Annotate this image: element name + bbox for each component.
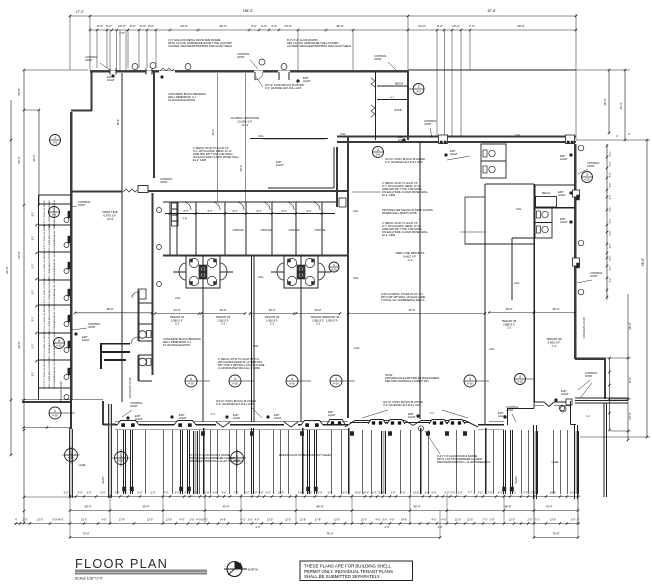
svg-text:COL.: COL. xyxy=(353,276,360,280)
svg-text:A-16: A-16 xyxy=(584,178,590,182)
svg-text:8'-0": 8'-0" xyxy=(307,210,312,213)
svg-text:5'-0": 5'-0" xyxy=(610,244,612,249)
svg-text:WITH HDWE AND LOCKSET: WITH HDWE AND LOCKSET xyxy=(48,223,51,252)
svg-text:JOINT: JOINT xyxy=(130,404,138,408)
svg-text:13'-0": 13'-0" xyxy=(267,519,273,522)
svg-text:LIGHT: LIGHT xyxy=(561,392,569,396)
svg-text:4'-0": 4'-0" xyxy=(256,526,261,529)
svg-text:1: 1 xyxy=(54,409,56,413)
svg-text:NORTH: NORTH xyxy=(248,568,258,572)
svg-text:36'-0": 36'-0" xyxy=(17,251,21,259)
storefront base squares xyxy=(201,432,204,436)
svg-text:JOINT: JOINT xyxy=(585,374,593,378)
toilet room top right xyxy=(481,144,506,178)
svg-text:36'-6": 36'-6" xyxy=(619,102,623,110)
svg-text:1,950 S.F.: 1,950 S.F. xyxy=(326,318,338,322)
hall west wall xyxy=(347,136,349,418)
svg-text:195'-0": 195'-0" xyxy=(243,9,254,13)
svg-text:3'-4" H& BASE HGT-FULL HGT.: 3'-4" H& BASE HGT-FULL HGT. xyxy=(385,160,424,164)
svg-text:30'-0": 30'-0" xyxy=(17,341,21,349)
svg-text:CONCRETE CURB: CONCRETE CURB xyxy=(60,381,63,402)
svg-text:36'-6": 36'-6" xyxy=(117,119,120,125)
svg-text:5: 5 xyxy=(58,339,60,343)
svg-text:9'-0": 9'-0" xyxy=(138,492,143,495)
svg-text:4: 4 xyxy=(291,377,293,381)
svg-text:CLOSER, WEATHERSTRIPPING AND A: CLOSER, WEATHERSTRIPPING AND ALUM THELD xyxy=(287,44,351,48)
svg-text:CLOSER AND ALUM THLD: CLOSER AND ALUM THLD xyxy=(53,360,56,387)
svg-text:C-2: C-2 xyxy=(270,322,275,326)
svg-text:7'-1": 7'-1" xyxy=(512,492,517,495)
svg-text:LIGHT: LIGHT xyxy=(82,338,90,342)
svg-text:16'-0": 16'-0" xyxy=(355,492,361,495)
svg-text:8'-0": 8'-0" xyxy=(33,264,35,269)
svg-text:8'-0": 8'-0" xyxy=(628,377,632,383)
office dim row xyxy=(165,213,335,215)
svg-text:9'-0": 9'-0" xyxy=(185,492,190,495)
svg-text:A-16: A-16 xyxy=(188,382,194,386)
left bay door leafs xyxy=(68,211,70,218)
storefront alcove southeast xyxy=(507,408,509,425)
svg-text:4'-0": 4'-0" xyxy=(261,24,267,28)
svg-text:4'-0": 4'-0" xyxy=(241,519,246,522)
svg-text:2'-0": 2'-0" xyxy=(528,519,533,522)
svg-text:3: 3 xyxy=(586,173,588,177)
svg-text:4: 4 xyxy=(234,377,236,381)
svg-text:OFFICE: OFFICE xyxy=(315,228,326,232)
svg-text:49'-0": 49'-0" xyxy=(239,165,243,172)
svg-text:LIGHT: LIGHT xyxy=(408,415,416,419)
wall omni north xyxy=(71,191,122,193)
svg-text:A-16: A-16 xyxy=(517,380,523,384)
svg-text:2'-8": 2'-8" xyxy=(571,519,576,522)
svg-text:3'-0"x4'-0": 3'-0"x4'-0" xyxy=(52,519,63,522)
svg-text:COL.: COL. xyxy=(514,281,521,285)
svg-text:43'-4": 43'-4" xyxy=(222,505,229,509)
svg-text:WITH HDWE AND LOCKSET: WITH HDWE AND LOCKSET xyxy=(48,277,51,306)
right wing west wall xyxy=(533,184,535,402)
svg-text:7'-6": 7'-6" xyxy=(298,492,303,495)
svg-text:MECH: MECH xyxy=(395,82,403,86)
svg-text:3'-0": 3'-0" xyxy=(478,492,483,495)
svg-text:30'-6": 30'-6" xyxy=(517,24,525,28)
storefront center pilasters xyxy=(327,420,345,425)
svg-text:A-6: A-6 xyxy=(416,90,421,94)
door frame corridor low xyxy=(138,289,146,299)
svg-text:74'-0": 74'-0" xyxy=(326,532,333,536)
svg-text:JOINT: JOINT xyxy=(237,55,245,59)
svg-text:13'-0": 13'-0" xyxy=(147,519,153,522)
svg-text:17'-0": 17'-0" xyxy=(76,10,84,14)
svg-text:2'-8": 2'-8" xyxy=(490,519,495,522)
svg-text:30'-4": 30'-4" xyxy=(84,505,91,509)
dimension top second row xyxy=(90,29,576,31)
counter omni xyxy=(100,343,130,345)
svg-text:2: 2 xyxy=(54,136,56,140)
svg-text:10'-0": 10'-0" xyxy=(278,492,284,495)
svg-text:5'-0": 5'-0" xyxy=(610,256,612,261)
svg-text:1: 1 xyxy=(53,208,55,212)
svg-text:8'-0": 8'-0" xyxy=(184,210,189,213)
center block dividers xyxy=(139,302,153,304)
dimension bottom row1 xyxy=(70,496,580,498)
shelving closet xyxy=(172,203,179,226)
svg-text:13'-0": 13'-0" xyxy=(550,519,556,522)
svg-text:C.J.: C.J. xyxy=(586,414,591,418)
svg-text:96'-6": 96'-6" xyxy=(641,258,645,266)
svg-text:CLOSER, WEATHERSTRIPPING AND A: CLOSER, WEATHERSTRIPPING AND ALUM THELD xyxy=(168,44,232,48)
svg-text:4'-6": 4'-6" xyxy=(271,24,277,28)
svg-text:CLOSER AND ALUM THLD: CLOSER AND ALUM THLD xyxy=(53,278,56,305)
pilaster corridor xyxy=(138,186,148,193)
svg-text:JOINT: JOINT xyxy=(587,164,595,168)
svg-text:16 HOUR ELEVATION: 16 HOUR ELEVATION xyxy=(168,98,195,102)
svg-text:36'-6": 36'-6" xyxy=(32,154,36,161)
svg-text:JOINT: JOINT xyxy=(88,325,96,329)
svg-text:WEATHERSTRIPPING + ALUM THRESH: WEATHERSTRIPPING + ALUM THRESHOLD xyxy=(190,459,244,463)
svg-text:3'-0": 3'-0" xyxy=(245,492,250,495)
svg-text:COL.: COL. xyxy=(354,346,361,350)
svg-text:9'-0": 9'-0" xyxy=(213,492,218,495)
svg-text:C4.2: C4.2 xyxy=(242,123,249,127)
svg-text:A-16: A-16 xyxy=(289,382,295,386)
door omni corridor xyxy=(123,189,137,192)
svg-text:JOINT: JOINT xyxy=(160,180,168,184)
svg-text:3'-0": 3'-0" xyxy=(458,492,463,495)
east entry steps xyxy=(575,397,628,399)
svg-text:OFFICE: OFFICE xyxy=(261,228,272,232)
wall west vestibule xyxy=(90,71,92,111)
svg-text:4: 4 xyxy=(335,377,337,381)
small door circle southeast xyxy=(560,406,566,412)
svg-text:13'-0": 13'-0" xyxy=(81,519,87,522)
svg-text:3'-0": 3'-0" xyxy=(328,492,333,495)
svg-text:86'-8": 86'-8" xyxy=(316,505,323,509)
svg-text:WITH HDWE AND LOCKSET: WITH HDWE AND LOCKSET xyxy=(48,251,51,280)
svg-text:LANE: LANE xyxy=(552,460,559,464)
svg-text:2: 2 xyxy=(418,85,420,89)
svg-text:(1 HOUR RATED WALL EL 4" GRM): (1 HOUR RATED WALL EL 4" GRM) xyxy=(218,366,260,370)
svg-text:4: 4 xyxy=(377,148,379,152)
wall omni east xyxy=(121,73,123,402)
svg-text:8'-0": 8'-0" xyxy=(33,290,35,295)
svg-text:JOINT: JOINT xyxy=(424,122,432,126)
svg-text:15'-6": 15'-6" xyxy=(628,412,632,420)
svg-text:13'-0": 13'-0" xyxy=(166,519,172,522)
svg-text:12'-0": 12'-0" xyxy=(285,519,291,522)
svg-text:34'-0": 34'-0" xyxy=(219,308,226,312)
svg-text:TYPICAL ALL NONBEARING WALLS: TYPICAL ALL NONBEARING WALLS xyxy=(381,298,425,302)
svg-text:OFFICE: OFFICE xyxy=(233,228,244,232)
svg-text:A-16: A-16 xyxy=(56,344,62,348)
svg-text:C-2: C-2 xyxy=(507,326,512,330)
svg-text:C-2: C-2 xyxy=(552,344,557,348)
section marker A6-2 xyxy=(50,135,61,146)
offices bottom wall xyxy=(163,255,348,257)
svg-text:14'-0": 14'-0" xyxy=(418,24,426,28)
svg-text:LIGHT: LIGHT xyxy=(450,152,458,156)
svg-text:EL 4" GRM: EL 4" GRM xyxy=(193,158,206,162)
soffit line global crossing xyxy=(268,187,334,189)
dimension right wing rooms xyxy=(606,144,608,300)
door opening top wall 2 xyxy=(254,72,256,80)
svg-text:70'-0": 70'-0" xyxy=(552,532,559,536)
door circles tenant west wall xyxy=(157,208,162,213)
svg-text:PER FIRE MARSHALLS DIRECTION: PER FIRE MARSHALLS DIRECTION xyxy=(385,379,429,383)
svg-text:WEATHERSTRIPPING + ALUM THRESH: WEATHERSTRIPPING + ALUM THRESHOLD xyxy=(437,460,491,464)
lane verticals xyxy=(603,403,605,497)
svg-text:9'-0": 9'-0" xyxy=(259,492,264,495)
svg-text:15'-0": 15'-0" xyxy=(284,24,292,28)
svg-text:LIGHT: LIGHT xyxy=(274,416,282,420)
svg-text:3'-4" H& BASE HGT-FULL HGT.: 3'-4" H& BASE HGT-FULL HGT. xyxy=(265,86,302,90)
canopy columns left xyxy=(69,429,71,498)
svg-text:14'-6": 14'-6" xyxy=(220,519,226,522)
svg-text:4'-6": 4'-6" xyxy=(442,519,447,522)
svg-text:5'-0": 5'-0" xyxy=(383,519,388,522)
svg-text:COL.: COL. xyxy=(175,296,182,300)
svg-text:4: 4 xyxy=(469,377,471,381)
svg-text:7'-1": 7'-1" xyxy=(123,492,128,495)
svg-text:3'-0": 3'-0" xyxy=(115,492,120,495)
svg-text:LIGHT: LIGHT xyxy=(558,193,566,197)
svg-text:18'-0": 18'-0" xyxy=(550,492,556,495)
svg-text:13'-0": 13'-0" xyxy=(413,492,419,495)
svg-text:COL.: COL. xyxy=(258,134,265,138)
toilet right 1 xyxy=(537,211,541,218)
svg-text:3'-0": 3'-0" xyxy=(253,492,258,495)
hall west chase xyxy=(336,147,338,207)
svg-text:SCALE 1/16"=1'-0": SCALE 1/16"=1'-0" xyxy=(75,577,104,581)
svg-text:17'-6": 17'-6" xyxy=(315,519,321,522)
svg-text:12'-0": 12'-0" xyxy=(509,519,515,522)
svg-text:8'-0"x7'-0" ROLL UP DOOR: 8'-0"x7'-0" ROLL UP DOOR xyxy=(44,200,46,227)
toilet center block 1 xyxy=(147,331,152,338)
mech room right xyxy=(535,184,575,186)
svg-text:8'-0"x7'-0" ROLL UP DOOR: 8'-0"x7'-0" ROLL UP DOOR xyxy=(44,305,46,332)
marker southeast xyxy=(515,374,526,385)
svg-text:C-2: C-2 xyxy=(316,322,321,326)
svg-text:EL 4" GRM: EL 4" GRM xyxy=(382,233,395,237)
svg-text:A-6: A-6 xyxy=(52,213,57,217)
svg-text:16 HOUR ELEVATION: 16 HOUR ELEVATION xyxy=(163,343,190,347)
markers tenant row xyxy=(185,375,197,387)
svg-text:5'-0": 5'-0" xyxy=(610,278,612,283)
wall y184 right wing xyxy=(485,183,534,185)
door circles east wall xyxy=(578,145,584,151)
svg-text:3'-0": 3'-0" xyxy=(425,492,430,495)
svg-text:5'-0": 5'-0" xyxy=(610,183,612,188)
svg-text:8'-0": 8'-0" xyxy=(33,317,35,322)
east wall pilaster jogs xyxy=(573,190,580,197)
svg-text:COL.: COL. xyxy=(353,209,360,213)
svg-text:5'-0": 5'-0" xyxy=(610,152,612,157)
svg-text:5'-0": 5'-0" xyxy=(106,24,112,28)
storefront band east xyxy=(478,424,504,426)
tenant wall C xyxy=(300,256,302,422)
svg-text:15'-0": 15'-0" xyxy=(180,24,188,28)
wall center block west xyxy=(138,290,140,341)
svg-text:3'-4" H& BASE HGT-FULL HGT.: 3'-4" H& BASE HGT-FULL HGT. xyxy=(383,403,422,407)
col line top xyxy=(250,138,328,140)
svg-text:4: 4 xyxy=(333,263,335,267)
svg-text:LIGHT: LIGHT xyxy=(179,416,187,420)
dimension left main xyxy=(23,70,25,523)
svg-text:45'-0": 45'-0" xyxy=(106,307,113,311)
svg-text:STOP: STOP xyxy=(394,108,402,112)
svg-text:70'-0": 70'-0" xyxy=(82,532,89,536)
svg-text:5'-0": 5'-0" xyxy=(343,492,348,495)
dimension left outer xyxy=(10,100,12,455)
storefront band west xyxy=(115,420,348,422)
svg-text:A-16: A-16 xyxy=(52,414,58,418)
svg-text:3'-0": 3'-0" xyxy=(531,492,536,495)
top wall door jambs xyxy=(109,69,111,75)
svg-text:LIGHT: LIGHT xyxy=(276,163,284,167)
svg-text:A-16: A-16 xyxy=(333,382,339,386)
note box xyxy=(300,561,413,581)
svg-text:C-2: C-2 xyxy=(408,258,413,262)
left bay block west line xyxy=(38,195,40,400)
svg-text:7'-6": 7'-6" xyxy=(469,24,475,28)
marker hall left xyxy=(329,262,339,272)
section marker east xyxy=(582,172,593,183)
svg-text:3'-0": 3'-0" xyxy=(222,492,227,495)
svg-text:LIGHT: LIGHT xyxy=(560,157,568,161)
wall corridor long xyxy=(148,190,348,192)
section marker A6-1 xyxy=(49,207,60,218)
svg-text:LIGHT: LIGHT xyxy=(303,79,311,83)
svg-text:JOINT: JOINT xyxy=(85,58,93,62)
wall east range north xyxy=(337,135,576,137)
svg-text:5'-0": 5'-0" xyxy=(610,231,612,236)
svg-text:RAMP: RAMP xyxy=(102,476,105,483)
svg-text:5'-0": 5'-0" xyxy=(610,207,612,212)
svg-text:WITH HDWE AND LOCKSET: WITH HDWE AND LOCKSET xyxy=(48,304,51,333)
svg-text:7'-0": 7'-0" xyxy=(483,519,488,522)
svg-text:8'-0": 8'-0" xyxy=(130,24,136,28)
svg-text:8'-0"x7'-0" ROLL UP DOOR: 8'-0"x7'-0" ROLL UP DOOR xyxy=(44,278,46,305)
storefront pilaster legs xyxy=(123,430,125,494)
svg-text:3'-0": 3'-0" xyxy=(205,492,210,495)
svg-text:LANE: LANE xyxy=(79,463,86,467)
dimension bottom row4 xyxy=(70,537,440,539)
svg-text:12'-0": 12'-0" xyxy=(467,519,473,522)
wall southwest xyxy=(22,399,103,401)
svg-text:COL.: COL. xyxy=(515,133,522,137)
svg-text:8'-0": 8'-0" xyxy=(33,212,35,217)
svg-text:WITH HDWE AND LOCKSET: WITH HDWE AND LOCKSET xyxy=(48,359,51,388)
svg-text:5'-0": 5'-0" xyxy=(610,162,612,167)
svg-text:34'-0": 34'-0" xyxy=(268,308,275,312)
svg-text:JOINT: JOINT xyxy=(506,408,514,412)
svg-text:LIGHT: LIGHT xyxy=(135,417,143,421)
section marker A16-1 xyxy=(49,407,61,419)
room rect tenant4a xyxy=(465,197,485,244)
svg-text:4'-0": 4'-0" xyxy=(432,519,437,522)
svg-text:A-6: A-6 xyxy=(53,141,58,145)
svg-text:7'-0": 7'-0" xyxy=(164,492,169,495)
svg-text:A-16: A-16 xyxy=(331,268,337,272)
svg-text:3'-0": 3'-0" xyxy=(391,492,396,495)
hall east wall xyxy=(419,142,421,419)
pilaster boxes on north wall xyxy=(439,135,448,144)
door circles west wall xyxy=(64,218,69,223)
svg-text:7'-0": 7'-0" xyxy=(234,492,239,495)
svg-text:PERMIT ONLY. INDIVIDUAL TENANT: PERMIT ONLY. INDIVIDUAL TENANT PLANS xyxy=(304,569,393,574)
svg-text:88'-8": 88'-8" xyxy=(504,505,511,509)
svg-text:3'-0": 3'-0" xyxy=(570,492,575,495)
dimension top overall xyxy=(70,15,576,17)
svg-text:8'-0"x7'-0" ROLL UP DOOR: 8'-0"x7'-0" ROLL UP DOOR xyxy=(44,252,46,279)
svg-text:4'-0": 4'-0" xyxy=(180,519,185,522)
svg-text:8'-0"x7'-0" ROLL UP DOOR: 8'-0"x7'-0" ROLL UP DOOR xyxy=(44,360,46,387)
wall tenant west demising xyxy=(153,71,155,178)
svg-text:JOINT: JOINT xyxy=(590,274,598,278)
door circles top wall xyxy=(132,64,138,70)
dimension bottom extensions xyxy=(69,494,71,524)
svg-text:14'-6": 14'-6" xyxy=(401,519,407,522)
svg-text:9'-6": 9'-6" xyxy=(97,24,103,28)
toilet center block 2 xyxy=(147,359,152,366)
svg-text:16'-0": 16'-0" xyxy=(363,492,369,495)
svg-text:RAMP: RAMP xyxy=(515,476,518,483)
north arrow xyxy=(227,562,242,577)
dimension right overall xyxy=(646,140,648,437)
svg-text:46'-6": 46'-6" xyxy=(336,24,344,28)
svg-text:96'-0": 96'-0" xyxy=(5,266,9,274)
dimension extension lines top xyxy=(69,16,71,70)
svg-text:2'-0": 2'-0" xyxy=(524,492,529,495)
office partitions xyxy=(169,202,171,255)
dimension right upper xyxy=(608,70,610,133)
svg-text:9'-0": 9'-0" xyxy=(379,492,384,495)
svg-text:CLOSER AND ALUM THLD: CLOSER AND ALUM THLD xyxy=(53,305,56,332)
svg-text:12'-6": 12'-6" xyxy=(300,519,306,522)
svg-text:3'-0": 3'-0" xyxy=(78,492,83,495)
mech corridor top xyxy=(375,71,377,140)
svg-text:4'-0": 4'-0" xyxy=(390,519,395,522)
wall mech east xyxy=(407,71,409,140)
svg-text:5'-0": 5'-0" xyxy=(140,24,146,28)
svg-text:CONCRETE CURB: CONCRETE CURB xyxy=(583,317,586,338)
svg-text:34'-0": 34'-0" xyxy=(173,308,180,312)
control joint leaders xyxy=(100,63,110,70)
svg-text:4'-6": 4'-6" xyxy=(251,24,257,28)
svg-text:5'-0": 5'-0" xyxy=(610,266,612,271)
svg-text:30'-6": 30'-6" xyxy=(603,98,607,106)
svg-text:12'-0": 12'-0" xyxy=(455,519,461,522)
svg-text:4: 4 xyxy=(519,375,521,379)
wall west step xyxy=(71,109,92,111)
wall y244 right wing xyxy=(465,243,534,245)
svg-text:8'-0"x7'-0" ROLL UP DOOR: 8'-0"x7'-0" ROLL UP DOOR xyxy=(44,224,46,251)
svg-text:C-2: C-2 xyxy=(221,322,226,326)
svg-text:MEDIUM ALUM STOREFRONT CUT SHE: MEDIUM ALUM STOREFRONT CUT SHEET xyxy=(279,453,332,457)
svg-text:3'-0": 3'-0" xyxy=(266,492,271,495)
svg-text:23'-0": 23'-0" xyxy=(118,24,126,28)
door opening top wall 1 xyxy=(160,68,174,71)
svg-text:9'-0": 9'-0" xyxy=(432,492,437,495)
svg-text:17'-6": 17'-6" xyxy=(119,519,125,522)
svg-text:5'-0": 5'-0" xyxy=(437,24,443,28)
svg-text:10'-0": 10'-0" xyxy=(452,24,460,28)
svg-text:MECH: MECH xyxy=(542,191,550,195)
svg-text:A-16: A-16 xyxy=(232,382,238,386)
svg-text:9'-0": 9'-0" xyxy=(318,492,323,495)
tenant wall B pair xyxy=(251,256,253,422)
svg-text:3'-0": 3'-0" xyxy=(190,519,195,522)
svg-text:5'-0": 5'-0" xyxy=(610,219,612,224)
